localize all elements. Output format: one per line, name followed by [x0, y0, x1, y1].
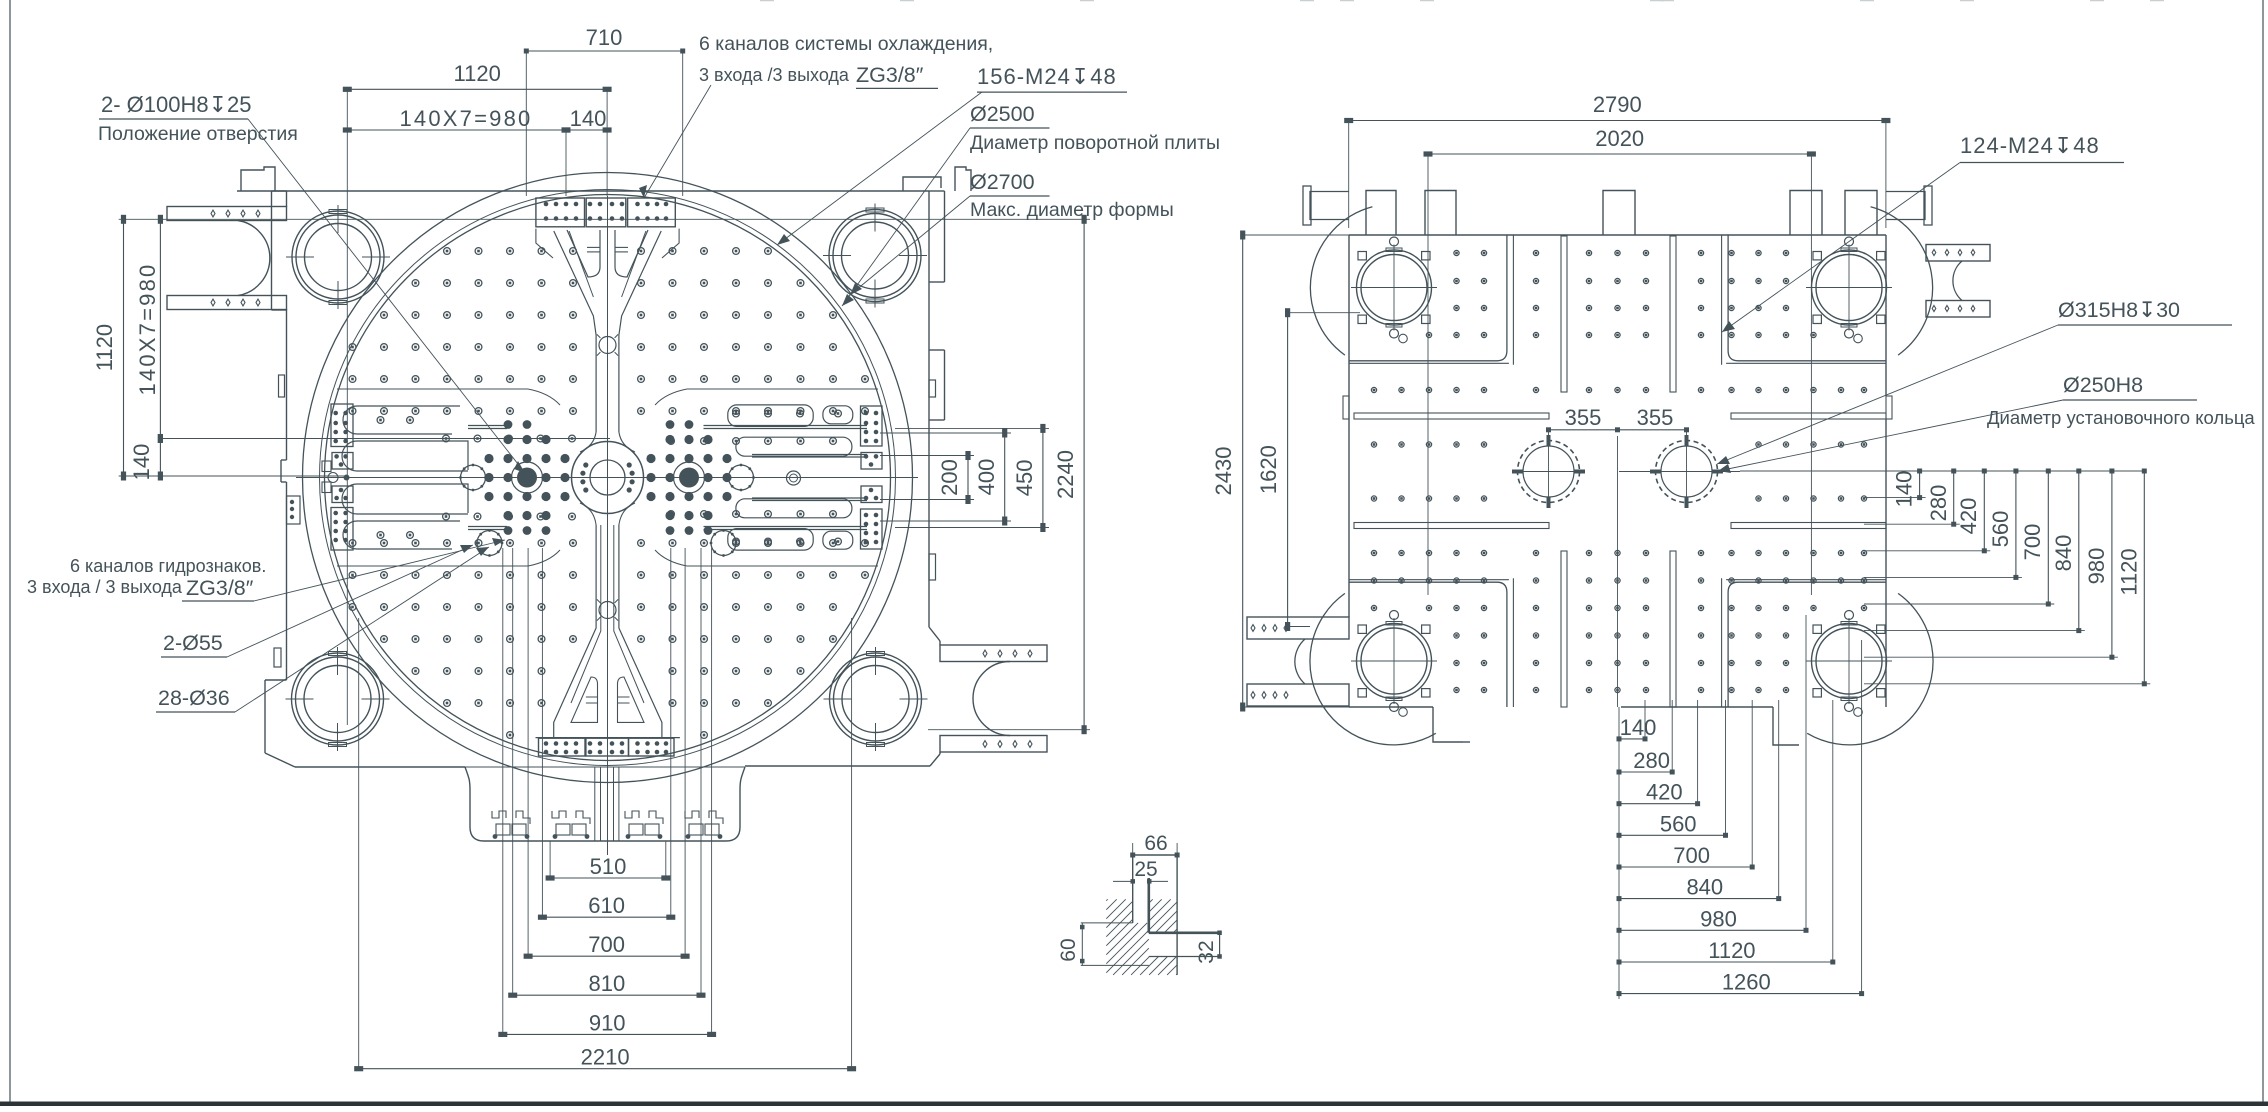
upper cooling connector blocks: [536, 198, 585, 227]
svg-text:810: 810: [589, 971, 626, 996]
right view vertical slots: [1561, 236, 1567, 392]
right view top-left pipe: [1310, 192, 1349, 220]
left view bottom-right ear fork: [940, 645, 1047, 662]
bottom dimension 610: [542, 916, 670, 918]
svg-text:3 входа /3 выхода: 3 входа /3 выхода: [699, 65, 850, 85]
svg-text:156-M24↧48: 156-M24↧48: [977, 64, 1117, 89]
svg-text:32: 32: [1195, 940, 1218, 963]
dimension 2790: [1349, 120, 1886, 122]
leader hydro: [254, 540, 505, 601]
bolt circle rings D55: [461, 465, 486, 490]
leader D315: [1717, 325, 2058, 464]
bottom dimension 910: [503, 1033, 712, 1035]
svg-text:2790: 2790: [1593, 92, 1642, 117]
svg-text:140: 140: [129, 444, 154, 481]
top edge faint marks: [760, 0, 2164, 1]
svg-text:400: 400: [974, 459, 999, 496]
svg-text:840: 840: [1686, 875, 1723, 900]
dimension 140X7=980 top: [347, 129, 566, 131]
right view corner bosses arcs: [1310, 207, 1372, 355]
right side stacked dims 140-1120: [1740, 470, 2144, 472]
svg-text:60: 60: [1057, 938, 1080, 961]
svg-text:Диаметр установочного кольца: Диаметр установочного кольца: [1987, 407, 2255, 428]
svg-text:1120: 1120: [454, 61, 501, 86]
right view top mounting tabs: [1366, 191, 1396, 236]
top Y-rib structure: [536, 229, 553, 258]
cooling hole bottom on centerline: [599, 602, 616, 619]
svg-text:1260: 1260: [1722, 970, 1771, 995]
bottom dimension 2210: [359, 1068, 852, 1070]
svg-text:610: 610: [588, 893, 625, 918]
svg-text:2-Ø55: 2-Ø55: [163, 631, 223, 655]
rotary plate circle D2500: [325, 195, 891, 761]
svg-text:140: 140: [570, 106, 607, 131]
leader 156-M24: [777, 92, 982, 245]
svg-text:3 входа / 3 выхода: 3 входа / 3 выхода: [27, 577, 183, 597]
central locating ring boss: [572, 442, 644, 514]
svg-text:280: 280: [1633, 748, 1670, 773]
svg-text:Диаметр поворотной плиты: Диаметр поворотной плиты: [970, 132, 1220, 154]
dimension 355 355: [1549, 429, 1687, 431]
bottom Y-rib with triangular cutouts: [580, 503, 596, 525]
rib outlines around center: [687, 388, 878, 390]
svg-text:710: 710: [586, 25, 623, 50]
right view hole grid: [1454, 250, 1459, 255]
svg-text:140X7=980: 140X7=980: [135, 263, 160, 396]
right view horizontal slots: [1354, 413, 1549, 419]
svg-text:Ø250H8: Ø250H8: [2063, 373, 2143, 397]
dimension 140 top: [566, 129, 607, 131]
M24 mounting hole grid: [444, 248, 451, 255]
foot extension bottom: [465, 767, 484, 841]
right dimension 2240: [1083, 219, 1085, 729]
svg-text:450: 450: [1012, 460, 1037, 497]
svg-text:6 каналов гидрознаков.: 6 каналов гидрознаков.: [70, 556, 266, 576]
svg-text:1120: 1120: [2116, 548, 2141, 595]
right view tie-bar holes: [1357, 250, 1432, 325]
left hydraulic hub: [517, 468, 537, 488]
svg-text:840: 840: [2051, 535, 2076, 572]
svg-text:355: 355: [1637, 405, 1674, 430]
left view moving platen outline: [237, 190, 929, 192]
leader D2700: [850, 196, 970, 295]
section hatch: [1106, 899, 1177, 975]
svg-text:510: 510: [590, 854, 627, 879]
long extension line upper: [119, 218, 1090, 220]
dimension 2430: [1242, 235, 1244, 707]
extra hole rows near center band: [443, 435, 450, 442]
svg-text:66: 66: [1144, 832, 1167, 855]
svg-text:140X7=980: 140X7=980: [400, 106, 533, 131]
svg-text:1120: 1120: [1708, 938, 1755, 963]
svg-text:560: 560: [1660, 811, 1697, 836]
dimension 1620: [1287, 313, 1289, 627]
right view top-right pipe: [1886, 192, 1925, 220]
svg-text:Макс. диаметр формы: Макс. диаметр формы: [970, 199, 1174, 221]
right dimension 450: [1042, 428, 1044, 527]
leader D250: [1718, 400, 2063, 471]
dimension 2020: [1428, 153, 1811, 155]
left view top-right ear bracket: [903, 177, 941, 191]
left dimension 1120 vertical: [123, 219, 125, 476]
svg-text:2430: 2430: [1211, 447, 1236, 496]
bottom dimension 810: [513, 994, 701, 996]
svg-text:ZG3/8″: ZG3/8″: [186, 576, 254, 600]
svg-text:980: 980: [2084, 548, 2109, 585]
slot plates right of hub: [704, 405, 868, 550]
leader to hub hole: [248, 119, 525, 473]
left dimension 140X7=980 vertical: [159, 219, 161, 438]
svg-text:280: 280: [1926, 485, 1951, 522]
right edge connector blocks: [861, 406, 883, 446]
svg-text:Ø2700: Ø2700: [970, 170, 1035, 194]
svg-text:700: 700: [588, 932, 625, 957]
svg-text:ZG3/8″: ZG3/8″: [856, 63, 924, 87]
bottom dimension 700: [528, 955, 685, 957]
svg-text:1620: 1620: [1256, 445, 1281, 494]
max mold diameter circle D2700: [303, 173, 913, 783]
foot clamp brackets: [492, 811, 506, 818]
svg-text:1120: 1120: [92, 324, 117, 371]
lower connector blocks: [539, 738, 586, 756]
svg-text:Ø2500: Ø2500: [970, 102, 1035, 126]
svg-text:Ø315H8↧30: Ø315H8↧30: [2058, 298, 2180, 322]
small hole right of hub: [787, 471, 801, 485]
bottom dimension 510: [550, 877, 666, 879]
svg-text:355: 355: [1565, 405, 1602, 430]
svg-text:420: 420: [1956, 498, 1981, 535]
svg-text:200: 200: [937, 459, 962, 496]
leader 2-D55: [227, 545, 473, 657]
svg-text:700: 700: [2020, 524, 2045, 561]
svg-text:910: 910: [589, 1010, 626, 1035]
svg-text:140: 140: [1892, 471, 1917, 508]
svg-text:2240: 2240: [1053, 450, 1078, 499]
centerlines: [296, 477, 918, 479]
center band extension lines to hubs: [468, 425, 507, 427]
leader D2500: [842, 128, 970, 306]
cooling hole top on centerline: [599, 337, 616, 354]
leader 28-D36: [235, 547, 489, 712]
right view right-top fork bracket: [1926, 245, 1990, 262]
right view fixed platen outline: [1349, 234, 1886, 236]
left view tie-bar holes: [292, 211, 384, 303]
bottom stacked dims 140-1260 right view: [1618, 707, 1620, 999]
right view corner block outlines: [1349, 235, 1507, 361]
svg-text:28-Ø36: 28-Ø36: [158, 686, 230, 710]
T-slot section detail: [1057, 832, 1222, 975]
leader cooling to connector block: [644, 85, 711, 198]
left view top-left ear bracket: [167, 207, 287, 221]
svg-text:700: 700: [1673, 843, 1710, 868]
svg-text:560: 560: [1988, 511, 2013, 548]
svg-text:6 каналов системы охлаждения,: 6 каналов системы охлаждения,: [699, 33, 993, 55]
left dimension 140 vertical: [159, 439, 161, 477]
svg-text:Положение отверстия: Положение отверстия: [98, 123, 298, 145]
svg-text:980: 980: [1700, 906, 1737, 931]
right dimension 400: [1004, 433, 1006, 521]
svg-text:124-M24↧48: 124-M24↧48: [1960, 133, 2100, 158]
leader 124-M24: [1722, 163, 1960, 333]
right dimension 200: [967, 456, 969, 500]
svg-text:2210: 2210: [581, 1045, 630, 1070]
slot plates left of hub: [342, 406, 468, 549]
svg-text:25: 25: [1134, 858, 1157, 881]
dimension 1120 top: [347, 88, 607, 90]
right view central circles: [1518, 441, 1580, 503]
svg-text:2020: 2020: [1595, 126, 1644, 151]
left edge connector blocks: [331, 404, 353, 447]
svg-text:420: 420: [1646, 780, 1683, 805]
right view left-middle fork bracket: [1247, 617, 1349, 639]
svg-text:2- Ø100H8↧25: 2- Ø100H8↧25: [101, 92, 252, 117]
svg-text:140: 140: [1620, 715, 1657, 740]
dimension 710 top: [526, 50, 682, 52]
